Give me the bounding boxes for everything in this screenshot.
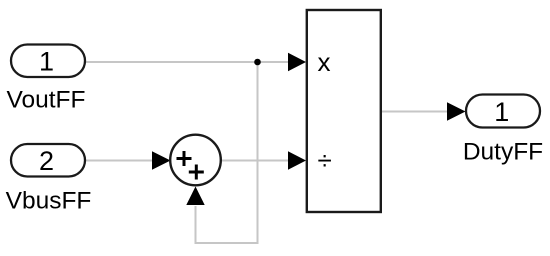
svg-text:VoutFF: VoutFF xyxy=(7,87,86,114)
svg-text:DutyFF: DutyFF xyxy=(463,139,543,166)
svg-text:÷: ÷ xyxy=(318,146,332,176)
svg-text:VbusFF: VbusFF xyxy=(6,188,92,215)
svg-text:1: 1 xyxy=(494,97,509,127)
svg-text:x: x xyxy=(318,47,331,77)
svg-text:2: 2 xyxy=(39,146,54,176)
svg-text:1: 1 xyxy=(39,47,54,77)
